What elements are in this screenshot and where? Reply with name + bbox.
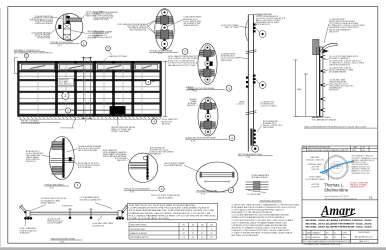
svg-text:W/ (2) 5/8&#34; BOLT: W/ (2) 5/8&#34; BOLT [94, 33, 110, 35]
svg-text:Shelmerdine: Shelmerdine [324, 187, 349, 192]
svg-text:DLS: DLS [362, 150, 365, 152]
svg-text:4: 4 [303, 232, 304, 234]
svg-text:1&#34; OD DBL KIP STOP: 1&#34; OD DBL KIP STOP [31, 32, 50, 34]
svg-text:2. LIGHT GAUGE CORE SECTION/LO: 2. LIGHT GAUGE CORE SECTION/LOADING SPEE… [232, 209, 285, 212]
svg-text:130: 130 [182, 225, 185, 227]
svg-text:LEAF) AT EA STILE: LEAF) AT EA STILE [183, 24, 199, 27]
svg-text:B: B [183, 229, 184, 231]
svg-text:WRITTEN CONSENT OF: WRITTEN CONSENT OF [352, 169, 370, 171]
svg-text:WIND SPEED (MPH): WIND SPEED (MPH) [131, 225, 147, 227]
svg-text:07/09: 07/09 [352, 150, 356, 152]
svg-text:ATTACHMENT AND THE BOLTS AND F: ATTACHMENT AND THE BOLTS AND FITTINGS AS… [232, 206, 297, 209]
svg-text:INSTALLED WITH STANDARDS AS SE: INSTALLED WITH STANDARDS AS SET FORTH BY… [232, 216, 286, 219]
svg-text:W/ (1) 5/16&#34; CUT-ON: W/ (1) 5/16&#34; CUT-ON [329, 84, 348, 86]
svg-text:136: 136 [201, 225, 204, 227]
svg-text:DWG NO/SHEET: DWG NO/SHEET [358, 232, 370, 234]
svg-text:ZONE, ROOF AT ANY SLOPE): ZONE, ROOF AT ANY SLOPE) [129, 217, 170, 220]
svg-text:ANCHORED TO TRANSFER THE WIND: ANCHORED TO TRANSFER THE WIND LOADS TO T… [232, 226, 288, 229]
svg-text:DRAWINGS WERE CALCULATED USING: DRAWINGS WERE CALCULATED USING ASCE 7-05… [129, 212, 212, 215]
svg-text:146: 146 [210, 225, 213, 227]
svg-text:CONFORMANCE WITH THE PROCEDURE: CONFORMANCE WITH THE PROCEDURE DESCRIBED… [129, 207, 210, 210]
svg-text:1. USE OF LESS THAN THE STEEL: 1. USE OF LESS THAN THE STEEL 2 TRANSFER… [232, 203, 301, 206]
svg-text:3. DOORS AND HARDWARE WILL BE: 3. DOORS AND HARDWARE WILL BE PROVIDED/M… [232, 214, 290, 217]
svg-text:16'2&#34; x 16'1&#34;: 16'2&#34; x 16'1&#34; [306, 159, 324, 161]
svg-text:W/ (2) 1/4&#34; x 3/4&#34;: W/ (2) 1/4&#34; x 3/4&#34; [127, 26, 147, 28]
svg-text:N.T.S.: N.T.S. [158, 53, 163, 55]
svg-text:FOR DOOR ELEMENTS: FOR DOOR ELEMENTS [21, 123, 41, 125]
svg-text:NO HUB BOLTED: NO HUB BOLTED [260, 104, 274, 106]
svg-text:7. GLAZE: IF SHOWN SEE PAGE 2: 7. GLAZE: IF SHOWN SEE PAGE 2 FOR ADDITI… [232, 232, 293, 235]
svg-text:1/4&#34; x 5/8&#34; SELF: 1/4&#34; x 5/8&#34; SELF [263, 125, 282, 127]
svg-text:DETAIL 5 THIS SHEET: DETAIL 5 THIS SHEET [111, 130, 130, 133]
svg-text:4/5/9: 4/5/9 [343, 237, 347, 239]
svg-text:FOLLOWING PARAMETERS (3 FEET O: FOLLOWING PARAMETERS (3 FEET OF DOOR WID… [129, 215, 217, 218]
svg-text:1.0: 1.0 [183, 237, 185, 239]
svg-text:NOTE 4 PLACES: NOTE 4 PLACES [61, 127, 76, 130]
svg-text:SEE NOTE 5: SEE NOTE 5 [117, 160, 127, 162]
svg-text:IRC-ECN-CD-17-L: IRC-ECN-CD-17-L [355, 236, 374, 238]
svg-text:SHELMERDINE P.E.: SHELMERDINE P.E. [350, 187, 365, 189]
svg-text:(1.5 X DESIGN LOADS): (1.5 X DESIGN LOADS) [305, 178, 325, 181]
svg-text:E330 AND ANSI/DASMA 108. THE P: E330 AND ANSI/DASMA 108. THE PRESSURES G… [129, 209, 215, 212]
svg-text:W/ TWO 1/4-20 x 5/8&#34;: W/ TWO 1/4-20 x 5/8&#34; [94, 14, 114, 16]
svg-text:GALV STL TRACK: GALV STL TRACK [225, 26, 240, 29]
svg-text:EXPOSURE LEVEL: EXPOSURE LEVEL [131, 229, 146, 231]
svg-text:4: 4 [304, 150, 305, 152]
svg-text:Thomas Shelmerdine, P.E. #5854: Thomas Shelmerdine, P.E. #58544 [324, 196, 349, 198]
svg-text:CHECKED: CHECKED [313, 237, 321, 239]
svg-text:1.0: 1.0 [201, 237, 203, 239]
svg-text:N.T.S.: N.T.S. [193, 91, 198, 93]
svg-text:RECOMMENDED SECTION CONFIGURAT: RECOMMENDED SECTION CONFIGURATION [14, 52, 53, 55]
svg-text:2: 2 [303, 237, 304, 239]
svg-text:SECTION: SECTION [162, 124, 171, 126]
svg-text:N.T.S.: N.T.S. [50, 187, 55, 189]
svg-text:DESCRIPTION OF REVISIONS: DESCRIPTION OF REVISIONS [308, 147, 330, 149]
svg-text:FL: FL [369, 196, 373, 200]
svg-text:LIGHT COMMERCIAL QUALITY W/ BA: LIGHT COMMERCIAL QUALITY W/ BAKED ENAMEL… [232, 221, 288, 224]
svg-text:TRST BOLT W/DRUM: TRST BOLT W/DRUM [35, 36, 51, 38]
svg-text:N.T.S.: N.T.S. [130, 192, 135, 194]
svg-text:10/5/9: 10/5/9 [343, 232, 347, 234]
svg-text:SEE NOTE 8: SEE NOTE 8 [329, 90, 339, 92]
svg-text:1-1/2&#34;: 1-1/2&#34; [236, 104, 245, 106]
svg-text:-51.8 PSF: -51.8 PSF [311, 186, 320, 188]
svg-text:MODEL 2500 ALARM LW2500 LW500,: MODEL 2500 ALARM LW2500 LW500, 2500 [306, 219, 373, 222]
svg-text:GLAZING OPTIONAL: GLAZING OPTIONAL [109, 55, 127, 58]
svg-text:1/4-20 x 5/8&#34; SELF: 1/4-20 x 5/8&#34; SELF [26, 153, 44, 155]
svg-text:141: 141 [192, 225, 195, 227]
svg-text:MOUNTED OUT: MOUNTED OUT [93, 225, 105, 227]
svg-text:MODEL 2572 ALARM HEITMENT 1542: MODEL 2572 ALARM HEITMENT 1542, 2506 [306, 222, 373, 225]
svg-text:ATTACHMENTS OF THE TABLE A NOT: ATTACHMENTS OF THE TABLE A NOTED ABOVE. [232, 211, 273, 214]
svg-text:N.T.S.: N.T.S. [201, 193, 206, 195]
svg-text:PULLEY DRUM W/ 5/16&#34;: PULLEY DRUM W/ 5/16&#34; [78, 165, 101, 167]
svg-text:N.T.S.: N.T.S. [60, 242, 65, 244]
svg-text:-34.5 PSF: -34.5 PSF [311, 169, 320, 171]
svg-text:4. DOOR SECTIONS STEEL TO BE G: 4. DOOR SECTIONS STEEL TO BE GALV. MIN 2… [232, 219, 294, 222]
svg-text:1.0: 1.0 [192, 237, 194, 239]
svg-text:THE METHOD OF TESTING WAS IN S: THE METHOD OF TESTING WAS IN SUBSTANTIAL [129, 204, 197, 207]
svg-text:ON 1-3/8&#178;: ON 1-3/8&#178; [59, 84, 72, 86]
svg-text:SEE NOTE 6: SEE NOTE 6 [187, 105, 197, 107]
svg-text:AND TRACK OPTION PACKAGES.: AND TRACK OPTION PACKAGES. [232, 234, 260, 237]
svg-text:6. ANCHOR TO SUPPORTING STRUCT: 6. ANCHOR TO SUPPORTING STRUCTURE TO RES… [232, 229, 291, 232]
svg-text:09/08: 09/08 [307, 237, 311, 239]
svg-text:SEE NOTE 7: SEE NOTE 7 [329, 31, 339, 33]
svg-text:SEE NOTE 4: SEE NOTE 4 [26, 161, 36, 163]
svg-text:TAP SCREWS: TAP SCREWS [221, 59, 233, 62]
svg-text:N.T.S.: N.T.S. [246, 157, 251, 159]
svg-text:P.E. 58544: P.E. 58544 [333, 168, 340, 170]
svg-text:MODEL 2552 ALARM HERITAGE 1552: MODEL 2552 ALARM HERITAGE 1552, 2556 [306, 226, 373, 229]
svg-text:2: 2 [65, 94, 67, 98]
svg-text:RESERVED &#169;2009: RESERVED &#169;2009 [352, 173, 370, 175]
svg-text:5. ATTACHED STRUCTURAL ELEMENT: 5. ATTACHED STRUCTURAL ELEMENTS SHALL BE… [232, 224, 288, 227]
svg-text:W/ (2) 1/4-20 x 5/8&#34; SELF: W/ (2) 1/4-20 x 5/8&#34; SELF [78, 148, 100, 150]
svg-text:N.T.S.: N.T.S. [191, 141, 196, 143]
svg-text:SEE TABLE A FOR STRUT SCHED.: SEE TABLE A FOR STRUT SCHED. [168, 64, 197, 67]
svg-text:HINGE: HINGE [239, 102, 245, 104]
svg-text:TABLE A ON PAGE 2: TABLE A ON PAGE 2 [157, 197, 173, 200]
svg-text:N.T.S.: N.T.S. [58, 45, 63, 47]
svg-text:1.0: 1.0 [210, 237, 212, 239]
svg-text:SCREWS 1/4-20 x: SCREWS 1/4-20 x [94, 35, 107, 37]
svg-text:BY: BY [363, 147, 365, 149]
